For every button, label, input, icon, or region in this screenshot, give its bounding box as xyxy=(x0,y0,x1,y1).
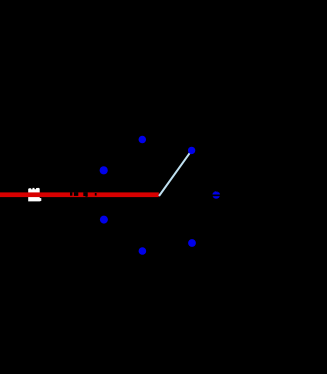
atom dot 2 (upper right, end of scattered ray) xyxy=(188,147,195,154)
atom dot 1 (top) xyxy=(139,136,147,144)
atom dot 6 (bottom) xyxy=(139,247,147,255)
black text marks overlapping the red ray xyxy=(70,192,97,196)
atom dot 5 (lower left) xyxy=(100,216,108,224)
atom dot 7 (lower right) xyxy=(188,239,196,247)
atom dot 3 (upper left) xyxy=(100,166,108,174)
scattered ray (light blue radius) xyxy=(159,150,192,196)
white label box on incident ray xyxy=(28,188,41,202)
incident ray (red), from left edge to circle centre xyxy=(0,192,159,197)
atom dot 4 (right, crossed by black text) xyxy=(212,190,221,198)
